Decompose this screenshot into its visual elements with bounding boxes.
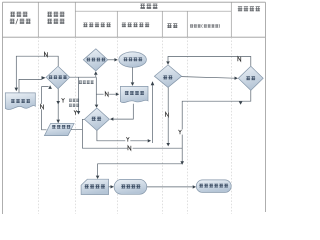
wire: 室长 N branch down	[167, 87, 169, 143]
wire: 室长 -> 公司领导	[182, 77, 235, 79]
card 合同签备	[81, 179, 109, 194]
header text 公司领导	[238, 7, 260, 11]
diamond 采购计划	[83, 49, 108, 71]
node Y label	[126, 137, 129, 141]
swimlane dashed dividers	[38, 37, 231, 214]
wire: 计划审核 Y -> 采购计划 (with branch down)	[70, 75, 96, 78]
wire: 合同签备 -> 履行合同	[109, 186, 111, 188]
wire: 审核 N branch (left vertex, down, right) + 计划平衡 stub	[71, 119, 182, 148]
parallelogram 计划平衡	[44, 124, 74, 136]
diamond 计划审核	[46, 66, 70, 88]
wire: vertical up into 室长审批 left vertex	[151, 85, 153, 143]
terminator 履行合同	[114, 179, 147, 194]
wire: 履行合同 -> 组织验收付款	[147, 186, 193, 188]
header bottom line	[3, 36, 266, 38]
node Y label	[74, 110, 77, 114]
diamond 审核	[84, 108, 109, 131]
wire: 计划平衡 N loop back to 计划审核	[42, 87, 49, 130]
diamond 审批 公司领导	[238, 66, 263, 90]
junction arrowhead at y=163.8 corner	[180, 161, 184, 165]
node N label	[39, 104, 44, 109]
wire: 计划审核 -> 计划平衡	[57, 89, 59, 120]
header text 计划管理部门	[47, 12, 64, 23]
document 计划申请	[5, 93, 35, 110]
node N label	[128, 146, 131, 150]
terminator 组织验收付款	[196, 180, 231, 193]
header 采购部 underline	[75, 10, 231, 12]
junction arrowhead on y=101 line	[239, 102, 243, 105]
diamond 审批 室长	[154, 65, 181, 88]
header text 采购业务室	[122, 23, 150, 27]
node Y label	[62, 98, 65, 102]
wire: 公司领导 N loop back to 室长 top	[168, 57, 251, 67]
document 合同文本	[120, 86, 148, 102]
header text 经办人(办事处等)	[190, 24, 220, 28]
node N label	[44, 52, 47, 56]
table outer border	[3, 2, 266, 214]
node N label	[166, 112, 169, 116]
wire: 合同文本 -> 审核 diamond (down then left)	[113, 104, 133, 119]
header text 合同管理室	[83, 23, 111, 27]
wire: branch down with label 签订委托书	[78, 77, 80, 111]
wire: 采购计划 -> 商务谈判 ellipse	[108, 59, 115, 61]
node N label	[105, 92, 108, 96]
header text 采购部	[140, 4, 157, 8]
node label 签订委托书	[79, 81, 94, 84]
header text 室长	[167, 24, 177, 28]
wire: 计划申请 -> 计划审核	[19, 79, 42, 93]
wire: x=96 down to 审核 with N branch to 合同文本	[95, 77, 97, 104]
wire: 公司领导 Y path down-left to 合同签备	[98, 90, 251, 175]
node N label	[238, 57, 241, 61]
header solid cell dividers	[38, 2, 231, 37]
node label 发标书/评标书	[69, 99, 79, 107]
ellipse 商务谈判	[119, 52, 147, 67]
header text 申请单位/部门	[10, 12, 31, 24]
wire: ellipse -> 合同文本	[132, 67, 134, 82]
node Y label	[179, 130, 182, 134]
wire: N loop 计划审核 top -> 计划申请 document	[16, 56, 58, 87]
wire: 审核 Y branch right	[97, 131, 148, 141]
